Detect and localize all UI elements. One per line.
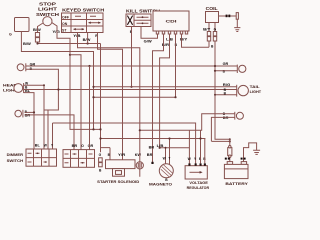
battery terminal dots <box>225 158 227 160</box>
wire lamp2 BR to light switch <box>25 115 75 150</box>
wire coil G pin <box>215 23 230 140</box>
connector coil G <box>213 32 216 36</box>
spark plug <box>236 13 238 20</box>
regulator terminals <box>188 163 190 165</box>
light switch table <box>63 150 95 168</box>
svg-text:BR: BR <box>149 146 155 150</box>
wire battery top line <box>211 140 229 142</box>
wire R/G bus to tail <box>94 86 237 88</box>
magneto stub T <box>169 139 171 165</box>
svg-text:TAIL: TAIL <box>250 85 261 89</box>
svg-text:STARTER SOLENOID: STARTER SOLENOID <box>97 180 139 184</box>
svg-text:BL: BL <box>35 144 40 148</box>
wire coil B/Y pin <box>208 23 210 48</box>
svg-text:SWITCH: SWITCH <box>36 12 59 17</box>
svg-text:BR: BR <box>72 144 78 148</box>
svg-text:G: G <box>99 153 102 157</box>
keyed switch contacts <box>75 15 96 17</box>
voltage regulator VR1 <box>185 166 207 179</box>
wire lamp3 upper <box>140 114 235 131</box>
head light lamp <box>14 84 23 93</box>
wire L/B to regulator W <box>160 130 190 165</box>
svg-text:T: T <box>168 157 170 161</box>
svg-text:B/R: B/R <box>162 43 170 47</box>
node B bus junctions <box>57 88 59 90</box>
ignition coil T1 <box>206 12 219 23</box>
svg-text:ON: ON <box>62 22 68 26</box>
kill switch X contact <box>127 16 132 25</box>
svg-text:B/Y: B/Y <box>203 28 211 32</box>
svg-text:KEYED SWITCH: KEYED SWITCH <box>62 8 104 13</box>
wire headlight W to dimmer <box>24 85 44 149</box>
wire tail third lead <box>215 94 237 96</box>
wire dimmer Y to regulator <box>53 123 196 164</box>
wire G-box down and across <box>21 32 93 130</box>
kill switch dashes <box>137 17 149 23</box>
svg-text:VOLTAGE: VOLTAGE <box>189 181 208 185</box>
svg-text:REGULATOR: REGULATOR <box>187 186 210 190</box>
wire lamp1 B <box>26 69 59 149</box>
magneto M1 <box>159 164 173 178</box>
svg-text:KW: KW <box>135 153 142 157</box>
svg-text:CDI: CDI <box>166 19 177 24</box>
node B/W junction <box>36 42 38 44</box>
wire CDI B/Y to coil <box>182 34 210 47</box>
magneto stub W <box>165 148 167 164</box>
kill switch SW2 table <box>126 14 151 27</box>
svg-text:LIGHT: LIGHT <box>250 90 262 94</box>
wire B/W bus <box>38 44 101 153</box>
svg-text:GR: GR <box>88 144 94 148</box>
CDI pins <box>156 31 158 34</box>
battery BT1 <box>227 162 232 165</box>
wire battery negative riser <box>244 143 257 162</box>
keyed switch SW table <box>62 13 104 33</box>
wire stop switch left lead <box>38 23 44 33</box>
wire coil HT lead <box>219 15 238 17</box>
svg-text:Y/G: Y/G <box>52 30 60 34</box>
wire lamp3 lower to battery line <box>211 117 234 141</box>
svg-text:R/G: R/G <box>223 83 231 87</box>
svg-text:MAGNETO: MAGNETO <box>149 182 172 186</box>
fuse F1 <box>229 139 231 161</box>
wire keyed R <box>98 33 123 160</box>
wire headlight BL to dimmer <box>24 93 34 149</box>
wire GR bus <box>26 65 238 67</box>
dimmer switch table <box>26 149 57 166</box>
CDI U1 <box>153 11 189 31</box>
connector under stop switch <box>35 33 39 37</box>
svg-text:B/W: B/W <box>83 38 92 42</box>
wire kill to CDI G/W <box>141 27 158 39</box>
connector on HT lead <box>226 15 228 18</box>
ground spark plug <box>234 28 240 32</box>
svg-text:BATTERY: BATTERY <box>225 181 248 186</box>
svg-text:Y/R: Y/R <box>118 153 126 157</box>
connector coil B/Y <box>207 32 210 36</box>
pilot lamp lower left <box>15 110 22 117</box>
svg-text:BR: BR <box>147 153 153 157</box>
wire Y/G from stop switch <box>52 23 101 130</box>
wire light switch GR <box>89 66 91 150</box>
wire keyed Y/B <box>78 33 140 153</box>
connector under G <box>99 158 103 162</box>
wire CDI L/B <box>160 34 170 148</box>
svg-text:G: G <box>214 28 217 32</box>
svg-text:OFF: OFF <box>62 16 70 20</box>
stop light switch S1 <box>43 17 52 26</box>
brake box G <box>15 18 30 32</box>
wire connector to B/W bus <box>37 42 39 44</box>
wire light switch O <box>70 55 81 150</box>
starter button KW circle <box>139 152 141 177</box>
ground battery <box>253 150 260 154</box>
tail light lamp <box>236 85 238 97</box>
wire jog to main bus <box>101 138 206 140</box>
wire kill B <box>131 27 133 87</box>
svg-text:G: G <box>9 33 12 37</box>
node GR junctions <box>88 65 90 67</box>
svg-text:G/W: G/W <box>144 40 153 44</box>
magneto terminal BR <box>151 162 153 164</box>
wire regulator B verticals <box>201 130 205 163</box>
svg-text:O: O <box>81 144 84 148</box>
svg-text:BR: BR <box>25 114 31 118</box>
wire ground bus y97 <box>94 96 176 98</box>
pilot lamp left GR <box>17 64 24 71</box>
svg-text:COIL: COIL <box>206 6 219 11</box>
wire right lamp B <box>215 70 237 72</box>
wire lamp2 B <box>25 111 35 113</box>
pilot lamp right upper <box>236 65 238 73</box>
svg-text:GR: GR <box>223 62 229 66</box>
svg-text:B/W: B/W <box>23 42 32 46</box>
wire G-B jumper <box>101 148 111 160</box>
svg-text:SWITCH: SWITCH <box>7 159 24 163</box>
wire CDI B ground <box>175 34 177 97</box>
pilot lamp right lower <box>234 112 236 120</box>
wire keyed B/W <box>87 33 89 44</box>
svg-text:DIMMER: DIMMER <box>7 153 24 157</box>
starter solenoid K1 <box>106 160 136 169</box>
wire black ground bus B <box>24 89 237 91</box>
wire CDI B/R to magneto <box>153 34 164 162</box>
